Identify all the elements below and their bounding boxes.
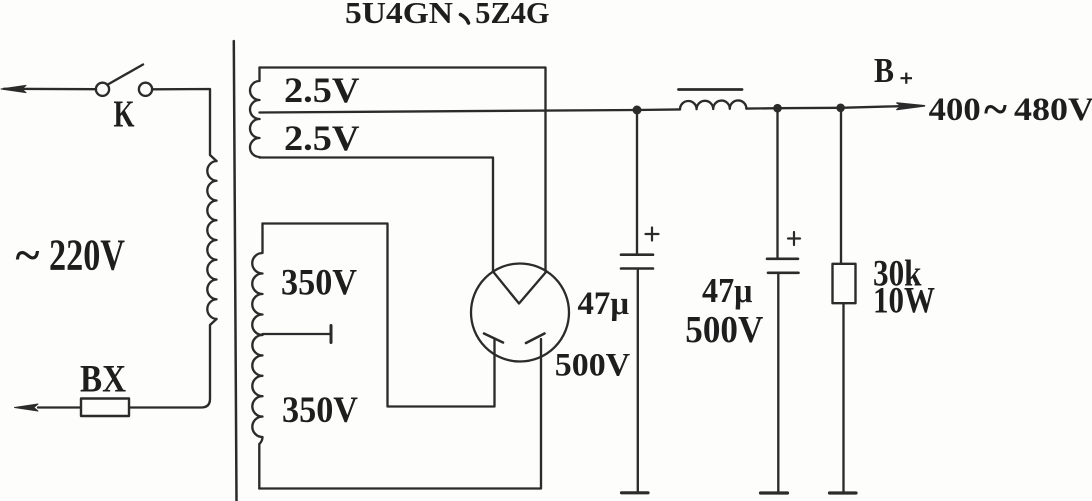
arrow AC input bottom (15, 404, 39, 411)
capacitor C1 plate bottom (621, 267, 653, 270)
wire inductor to output arrow (746, 106, 900, 108)
svg-text:350V: 350V (281, 263, 357, 304)
wire 2.5V bottom to tube filament left (260, 158, 494, 272)
svg-text:10W: 10W (873, 281, 935, 322)
transformer secondary 350V upper winding (252, 224, 262, 336)
transformer secondary 2.5V winding upper (250, 68, 260, 120)
wire B+ main line (260, 109, 681, 112)
capacitor C2 polarity plus (788, 232, 800, 245)
transformer primary winding (207, 161, 216, 319)
ground bar C2 (761, 491, 788, 494)
resistor R1 top wire (840, 108, 842, 264)
svg-text:~: ~ (984, 85, 1007, 134)
switch K lever (108, 65, 143, 85)
svg-text:220V: 220V (49, 231, 125, 280)
svg-text:B: B (874, 51, 894, 90)
svg-text:~: ~ (16, 229, 40, 280)
svg-text:2.5V: 2.5V (284, 118, 360, 158)
resistor R1 bottom wire (842, 303, 844, 491)
label enumeration comma (461, 15, 469, 24)
capacitor C2 plate bottom (768, 271, 799, 274)
resistor R1 body (833, 264, 856, 303)
wire HV bottom to tube right anode (259, 339, 541, 489)
wire switch to transformer primary (152, 89, 216, 161)
tube anode right (526, 334, 545, 344)
node junction dot 1 (633, 106, 642, 115)
svg-text:47μ: 47μ (578, 286, 630, 322)
capacitor C1 top wire (636, 110, 638, 254)
switch K circle right (139, 83, 152, 96)
arrow AC input top (1, 85, 26, 92)
capacitor C1 polarity plus (646, 228, 659, 241)
transformer core (234, 41, 237, 501)
capacitor C2 top wire (776, 108, 778, 258)
svg-text:5Z4G: 5Z4G (475, 0, 549, 30)
ground bar C1 (622, 491, 649, 494)
tube anode left (484, 334, 503, 343)
wire primary bottom to fuse (130, 319, 217, 408)
svg-text:500V: 500V (555, 347, 631, 383)
capacitor C1 plate top (621, 253, 653, 256)
label B+ plus sign (901, 73, 913, 84)
ground bar R1 (830, 491, 857, 494)
svg-text:47μ: 47μ (702, 272, 753, 310)
svg-text:K: K (114, 93, 135, 135)
rectifier tube V1 envelope (471, 264, 569, 362)
center tap wire (263, 333, 331, 335)
svg-text:2.5V: 2.5V (284, 70, 360, 110)
transformer secondary 2.5V winding lower (250, 119, 260, 158)
wire fuse to bottom arrow (38, 406, 81, 408)
arrow output B+ (897, 103, 925, 110)
node junction dot 3 (836, 104, 845, 113)
node junction dot 2 (773, 104, 782, 113)
wire HV top to tube left anode (263, 224, 495, 407)
fuse BX (81, 399, 129, 417)
transformer secondary 350V lower winding (252, 335, 262, 489)
svg-text:5U4GN: 5U4GN (345, 0, 453, 30)
svg-text:350V: 350V (282, 390, 358, 431)
capacitor C2 bottom wire (777, 273, 779, 492)
capacitor C2 plate top (767, 257, 798, 260)
tube filament (493, 272, 546, 304)
switch K circle left (96, 83, 109, 96)
svg-text:500V: 500V (685, 309, 764, 351)
wire 2.5V top to tube filament right (260, 68, 546, 273)
inductor L1 core bar (679, 88, 743, 91)
svg-text:400: 400 (929, 92, 981, 128)
svg-text:BX: BX (80, 358, 126, 401)
capacitor C1 bottom wire (637, 269, 639, 492)
svg-text:480V: 480V (1014, 92, 1092, 128)
center tap terminal bar (330, 326, 333, 343)
inductor L1 winding (680, 100, 746, 109)
wire AC input top line (4, 88, 96, 91)
